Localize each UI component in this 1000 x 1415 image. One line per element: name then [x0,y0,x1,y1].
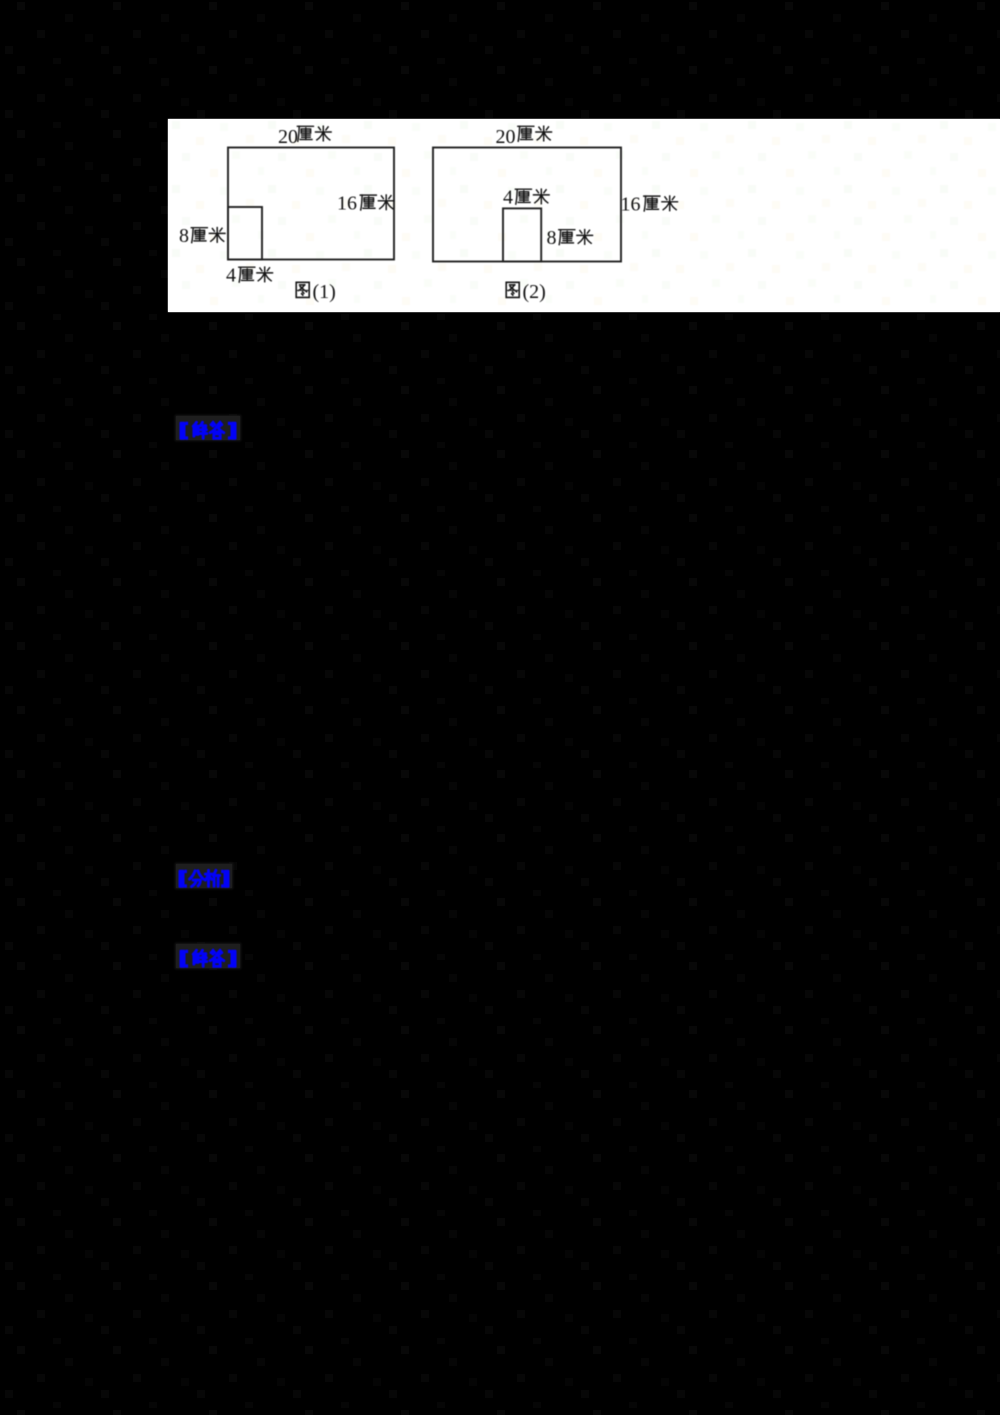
svg-text:8: 8 [547,227,557,249]
svg-text:20: 20 [496,126,516,148]
svg-text:4: 4 [503,187,513,209]
svg-text:16: 16 [621,194,641,216]
svg-text:(2): (2) [523,281,546,303]
svg-text:16: 16 [337,193,357,215]
white figure panel [168,119,1000,312]
blue label 3 【解答】 [176,944,240,968]
svg-text:(1): (1) [313,281,336,303]
svg-text:8: 8 [179,225,189,247]
figure 2 inner small rectangle [503,208,541,261]
svg-text:20: 20 [278,126,298,148]
blue label 1 【解答】 [176,416,240,440]
svg-text:4: 4 [226,265,236,287]
figure 1 inner small rectangle [228,207,262,260]
figure 2 outer rectangle [433,148,621,262]
figure 1 outer rectangle [228,148,394,260]
blue label 2 【分析】 [176,864,232,888]
fig1 caption 图(1) [296,282,309,297]
fig2 caption 图(2) [506,282,519,297]
